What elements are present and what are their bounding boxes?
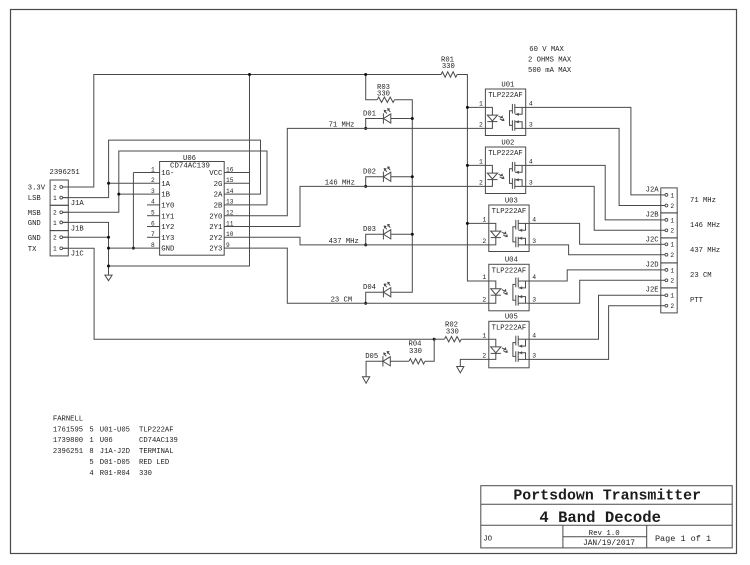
svg-text:2: 2 — [670, 278, 674, 285]
connector J1C — [50, 231, 84, 259]
svg-text:D02: D02 — [363, 169, 376, 177]
svg-text:VCC: VCC — [209, 170, 223, 178]
J2 band labels 71/146/437 MHz 23 CM PTT — [690, 197, 720, 305]
wire 3.3V to R03 — [364, 73, 377, 100]
svg-text:2396251: 2396251 — [53, 448, 83, 456]
LED D04 — [363, 282, 391, 305]
net label 437 MHz — [329, 238, 359, 246]
svg-text:2: 2 — [482, 238, 486, 245]
svg-text:330: 330 — [409, 348, 422, 356]
svg-text:1B: 1B — [161, 192, 170, 200]
wire LED anode rail — [391, 100, 414, 293]
svg-text:PTT: PTT — [690, 297, 704, 305]
ground symbol main — [105, 275, 112, 281]
wire R02 to U05 pin1 — [461, 338, 489, 340]
note 500 mA MAX — [528, 67, 572, 75]
wire U03 pin3 to J2C.2 — [529, 245, 661, 255]
svg-text:1: 1 — [53, 220, 57, 227]
LED D03 — [363, 224, 391, 247]
svg-text:2: 2 — [53, 184, 57, 191]
svg-text:JO: JO — [483, 536, 492, 544]
svg-text:3: 3 — [532, 353, 536, 360]
svg-text:U05: U05 — [505, 314, 518, 322]
page text — [655, 534, 711, 544]
connector J2B — [646, 212, 678, 238]
svg-text:1: 1 — [53, 195, 57, 202]
svg-text:8: 8 — [89, 448, 93, 456]
svg-text:J1B: J1B — [71, 225, 85, 233]
svg-text:5: 5 — [89, 426, 93, 434]
svg-text:500 mA MAX: 500 mA MAX — [528, 67, 572, 75]
svg-text:4: 4 — [529, 159, 533, 166]
optocoupler U04 TLP222AF — [482, 257, 536, 311]
svg-text:D01: D01 — [363, 110, 376, 118]
wire U03 pin4 to J2C.1 — [529, 223, 661, 244]
wire LSB to 1A and 2A — [63, 140, 261, 198]
svg-text:3: 3 — [529, 122, 533, 129]
svg-text:GND: GND — [28, 220, 41, 228]
svg-text:1761595: 1761595 — [53, 426, 83, 434]
svg-text:437 MHz: 437 MHz — [690, 247, 720, 255]
LED D01 — [363, 108, 391, 130]
svg-text:U01: U01 — [501, 81, 514, 89]
svg-text:1: 1 — [89, 437, 93, 445]
svg-text:TLP222AF: TLP222AF — [492, 268, 527, 276]
svg-text:4 Band Decode: 4 Band Decode — [539, 509, 661, 527]
svg-text:1: 1 — [670, 192, 674, 199]
svg-text:4: 4 — [89, 470, 93, 478]
svg-text:2: 2 — [670, 252, 674, 259]
svg-text:U04: U04 — [505, 257, 518, 265]
svg-text:2G: 2G — [214, 181, 223, 189]
svg-text:2: 2 — [53, 235, 57, 242]
svg-text:U02: U02 — [501, 139, 514, 147]
svg-text:1G-: 1G- — [161, 170, 174, 178]
svg-text:146 MHz: 146 MHz — [690, 222, 720, 230]
parts list table — [53, 415, 178, 478]
svg-text:1: 1 — [482, 332, 486, 339]
connector J1B — [50, 205, 84, 233]
title block frame — [481, 486, 732, 548]
svg-text:U03: U03 — [505, 197, 518, 205]
wire 3.3V rail — [63, 75, 442, 188]
wire U01 pin4 to J2A.1 — [526, 107, 661, 194]
ground symbol U05 — [457, 367, 464, 373]
wire 71 MHz net — [224, 128, 485, 215]
svg-text:4: 4 — [529, 101, 533, 108]
svg-text:3: 3 — [532, 296, 536, 303]
svg-text:J2B: J2B — [646, 212, 660, 220]
svg-text:CD74AC139: CD74AC139 — [170, 163, 210, 171]
svg-text:D03: D03 — [363, 226, 376, 234]
svg-text:J1A: J1A — [71, 200, 85, 208]
svg-text:Rev 1.0: Rev 1.0 — [589, 530, 620, 538]
svg-text:2: 2 — [479, 122, 483, 129]
svg-text:2 OHMS MAX: 2 OHMS MAX — [528, 57, 572, 65]
svg-text:U06: U06 — [100, 437, 113, 445]
wire U02 pin3 to J2B.2 — [526, 186, 661, 230]
svg-text:D04: D04 — [363, 284, 376, 292]
svg-text:LSB: LSB — [28, 195, 42, 203]
svg-text:1: 1 — [670, 267, 674, 274]
svg-text:J2D: J2D — [646, 262, 659, 270]
wire VCC/2G drop to ground rail — [109, 73, 252, 266]
svg-text:23 CM: 23 CM — [690, 272, 712, 280]
net label 23 CM — [331, 296, 353, 304]
wire MSB to 1B and 2B — [63, 151, 267, 212]
svg-text:330: 330 — [139, 470, 152, 478]
svg-text:TLP222AF: TLP222AF — [492, 325, 527, 333]
author JO — [483, 536, 492, 544]
optocoupler U01 TLP222AF — [479, 81, 533, 135]
svg-text:GND: GND — [28, 235, 41, 243]
svg-text:2A: 2A — [214, 192, 223, 200]
svg-text:4: 4 — [532, 217, 536, 224]
svg-text:2: 2 — [479, 180, 483, 187]
wire 23 CM net — [224, 248, 489, 303]
wire R01 to opto anode rail — [457, 75, 489, 282]
wire U05 pin2 to ground — [460, 359, 489, 366]
svg-text:R01-R04: R01-R04 — [100, 470, 130, 478]
net label 146 MHz — [325, 180, 355, 188]
svg-text:3: 3 — [529, 180, 533, 187]
svg-text:TX: TX — [28, 246, 37, 254]
svg-text:U01-U05: U01-U05 — [100, 426, 130, 434]
svg-text:146 MHz: 146 MHz — [325, 180, 355, 188]
svg-text:330: 330 — [442, 63, 455, 71]
optocoupler U05 TLP222AF — [482, 314, 536, 368]
svg-text:1Y3: 1Y3 — [161, 235, 174, 243]
svg-text:1: 1 — [482, 217, 486, 224]
wire U02 pin4 to J2B.1 — [526, 165, 661, 220]
svg-text:Portsdown Transmitter: Portsdown Transmitter — [513, 488, 701, 504]
wire U04 pin4 to J2D.1 — [529, 270, 661, 281]
svg-text:2Y2: 2Y2 — [209, 235, 222, 243]
wire U01 pin3 to J2A.2 — [526, 128, 661, 205]
connector J2D — [646, 262, 678, 288]
date text — [583, 539, 635, 548]
note 2 OHMS MAX — [528, 57, 572, 65]
svg-text:1: 1 — [670, 293, 674, 300]
svg-text:2Y0: 2Y0 — [209, 213, 222, 221]
decoder U06 CD74AC139 — [151, 155, 234, 255]
wire 437 MHz net — [224, 237, 489, 245]
title text Portsdown Transmitter — [513, 488, 701, 504]
svg-text:2B: 2B — [214, 203, 223, 211]
svg-text:2Y1: 2Y1 — [209, 224, 223, 232]
svg-text:TLP222AF: TLP222AF — [139, 426, 174, 434]
note 60 V MAX — [529, 46, 564, 54]
svg-text:2396251: 2396251 — [50, 169, 80, 177]
wire 1G- to GND — [132, 173, 160, 250]
resistor R01 330 — [441, 57, 457, 78]
LED D02 — [363, 166, 391, 188]
svg-text:71 MHz: 71 MHz — [329, 122, 355, 130]
svg-text:1739800: 1739800 — [53, 437, 83, 445]
connector J2A — [646, 187, 678, 213]
svg-text:60 V MAX: 60 V MAX — [529, 46, 564, 54]
U06 stubs 1Y0-1Y3 — [147, 205, 160, 237]
svg-text:1: 1 — [53, 246, 57, 253]
optocoupler U02 TLP222AF — [479, 139, 533, 193]
svg-text:4: 4 — [532, 332, 536, 339]
connector J1A — [50, 180, 84, 208]
wire GND bus — [63, 222, 160, 275]
svg-text:1Y2: 1Y2 — [161, 224, 174, 232]
connector J2E — [646, 287, 678, 313]
svg-text:2: 2 — [482, 353, 486, 360]
resistor R04 330 — [409, 341, 425, 364]
svg-text:MSB: MSB — [28, 210, 42, 218]
wire U04 pin3 to J2D.2 — [529, 280, 661, 303]
svg-text:71 MHz: 71 MHz — [690, 197, 716, 205]
svg-text:1: 1 — [482, 274, 486, 281]
wire D05 to ground — [366, 361, 383, 377]
svg-text:RED LED: RED LED — [139, 459, 169, 467]
rev text — [589, 530, 620, 538]
svg-text:1Y0: 1Y0 — [161, 203, 174, 211]
svg-text:2: 2 — [670, 203, 674, 210]
svg-text:1: 1 — [479, 101, 483, 108]
LED D05 — [365, 351, 409, 367]
svg-text:330: 330 — [377, 91, 390, 99]
svg-text:JAN/19/2017: JAN/19/2017 — [583, 539, 635, 548]
optocoupler U03 TLP222AF — [482, 197, 536, 251]
svg-text:3.3V: 3.3V — [28, 185, 46, 193]
svg-text:2: 2 — [670, 228, 674, 235]
svg-text:1Y1: 1Y1 — [161, 213, 175, 221]
svg-text:J1A-J2D: J1A-J2D — [100, 448, 130, 456]
svg-text:2: 2 — [53, 210, 57, 217]
wire U05 pin4 to J2E.1 — [529, 295, 661, 339]
resistor R03 330 — [377, 84, 394, 102]
svg-text:3: 3 — [532, 238, 536, 245]
svg-text:1A: 1A — [161, 181, 170, 189]
svg-text:23 CM: 23 CM — [331, 296, 353, 304]
svg-text:4: 4 — [532, 274, 536, 281]
connector J2C — [646, 237, 678, 263]
svg-text:J2C: J2C — [646, 237, 660, 245]
J1 signal names 3.3V LSB MSB GND GND TX — [28, 185, 46, 254]
wire 146 MHz net — [224, 186, 485, 226]
svg-text:TLP222AF: TLP222AF — [492, 208, 527, 216]
svg-text:2: 2 — [670, 303, 674, 310]
svg-text:J2E: J2E — [646, 287, 659, 295]
resistor R02 330 — [445, 322, 462, 342]
svg-text:CD74AC139: CD74AC139 — [139, 437, 178, 445]
net label 71 MHz — [329, 122, 355, 130]
wire R02 junction to R02 — [434, 338, 444, 340]
svg-text:1: 1 — [670, 242, 674, 249]
svg-text:2: 2 — [482, 296, 486, 303]
svg-text:TLP222AF: TLP222AF — [488, 150, 523, 158]
svg-text:J1C: J1C — [71, 251, 85, 259]
svg-text:J2A: J2A — [646, 187, 660, 195]
label 2396251 — [50, 169, 80, 177]
svg-text:Page 1 of 1: Page 1 of 1 — [655, 534, 711, 544]
svg-text:5: 5 — [89, 459, 93, 467]
svg-text:GND: GND — [161, 246, 175, 254]
subtitle text 4 Band Decode — [539, 509, 661, 527]
svg-text:TLP222AF: TLP222AF — [488, 92, 523, 100]
ground symbol D05 — [363, 377, 370, 383]
svg-text:1: 1 — [479, 159, 483, 166]
svg-text:330: 330 — [446, 329, 459, 337]
svg-text:D01-D05: D01-D05 — [100, 459, 130, 467]
svg-text:1: 1 — [670, 217, 674, 224]
svg-text:2Y3: 2Y3 — [209, 246, 222, 254]
wire TX to R04 — [425, 339, 434, 361]
wire TX net — [63, 248, 436, 340]
svg-text:FARNELL: FARNELL — [53, 415, 83, 423]
svg-text:D05: D05 — [365, 353, 378, 361]
wire U05 pin3 to J2E.2 — [529, 306, 661, 360]
svg-text:TERMINAL: TERMINAL — [139, 448, 174, 456]
svg-text:437 MHz: 437 MHz — [329, 238, 359, 246]
